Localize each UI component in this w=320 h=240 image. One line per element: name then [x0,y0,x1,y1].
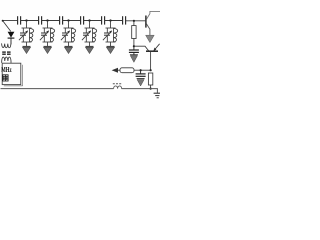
wire bottom rail left [1,88,114,90]
wire C8 to Q2 base lead [141,69,151,71]
variable capacitor CV5 [103,28,112,42]
transistor Q2 base bar horizontal [146,50,158,52]
wire tank 3 top bar [64,27,74,29]
wire tank 1 top bar [22,27,32,29]
transformer T1 secondary winding [2,57,11,63]
node junction Q2 base / C8 [150,69,152,71]
wire top rail segment 7 to Q1 base [126,20,146,22]
node junction C8 top [140,69,142,71]
ground tank 1 [23,42,31,54]
inductor L6 choke in rail [114,86,122,89]
ground arrow on Q1 emitter [146,35,155,42]
node N1 junction on top rail [25,19,27,21]
node N5 junction on top rail [109,19,111,21]
block box MHz input [2,63,22,86]
inductor L2 [51,28,55,42]
label glyph second line [3,75,8,81]
diode VD1 [8,32,15,45]
transistor Q1 base bar [145,16,147,28]
wire shunt tap tank 5 [110,21,112,29]
transformer T1 core [2,52,10,54]
wire shunt tap tank 3 [68,21,70,29]
wire shunt tap tank 2 [47,21,49,29]
wire tank 2 bottom bar [43,41,53,43]
wire input diagonal to diode [3,21,11,32]
node N3 junction on top rail [67,19,69,21]
wire top rail segment 5 [84,20,101,22]
inductor L5 [114,28,118,42]
variable capacitor CV4 [82,28,91,42]
resistor R3 [148,73,152,89]
wire shunt tap tank 1 [26,21,28,29]
wire tank 5 bottom bar [106,41,116,43]
transistor Q1 emitter [146,24,150,35]
wire tank 1 bottom bar [22,41,32,43]
resistor R2 horizontal [118,68,141,73]
node N4 junction on top rail [88,19,90,21]
capacitor C8 [136,70,146,76]
node input A [2,20,4,22]
inductor L3 [72,28,76,42]
wire tank 4 top bar [85,27,95,29]
wire top rail segment 2 [21,20,38,22]
capacitor C5 [102,16,105,24]
variable capacitor CV2 [40,28,49,42]
ground arrow under C8 [137,79,145,86]
transistor Q2 base lead down [150,52,152,70]
capacitor C1 [18,16,21,24]
wire tank 5 top bar [106,27,116,29]
wire top rail segment 4 [63,20,80,22]
capacitor C6 [123,16,126,24]
wire bottom rail right [122,89,158,93]
wire top rail segment 3 [42,20,59,22]
core of choke L6 [113,83,122,85]
node junction R3 to rail [150,88,152,90]
transistor Q1 collector [146,11,160,19]
node junction R1 top [133,20,135,22]
inductor L1 [30,28,34,42]
capacitor C3 [60,16,63,24]
wire R1 bottom to Q2 collector [134,46,149,51]
transformer T1 primary winding [2,43,11,48]
variable capacitor CV3 [61,28,70,42]
wire top rail segment 6 [105,20,122,22]
wire top rail segment 1 [3,20,18,22]
node N2 junction on top rail [46,19,48,21]
wire tank 3 bottom bar [64,41,74,43]
resistor R1 [132,21,136,46]
wire tank 2 top bar [43,27,53,29]
capacitor C2 [39,16,42,24]
capacitor C4 [81,16,84,24]
variable capacitor CV1 [19,28,28,42]
earth ground [154,93,160,98]
svg-text:MHz: MHz [1,65,12,74]
node junction R1 bottom [133,45,135,47]
arrow terminal pointing left [112,68,118,73]
capacitor C7 bypass [129,46,139,54]
ground tank 3 [65,42,73,54]
wire tank 4 bottom bar [85,41,95,43]
ground tank 5 [107,42,115,54]
ground tank 4 [86,42,94,54]
inductor L4 [93,28,97,42]
transistor Q2 emitter with arrow [153,44,159,51]
wire shunt tap tank 4 [89,21,91,29]
ground arrow under C7 [130,55,138,63]
ground tank 2 [44,42,52,54]
